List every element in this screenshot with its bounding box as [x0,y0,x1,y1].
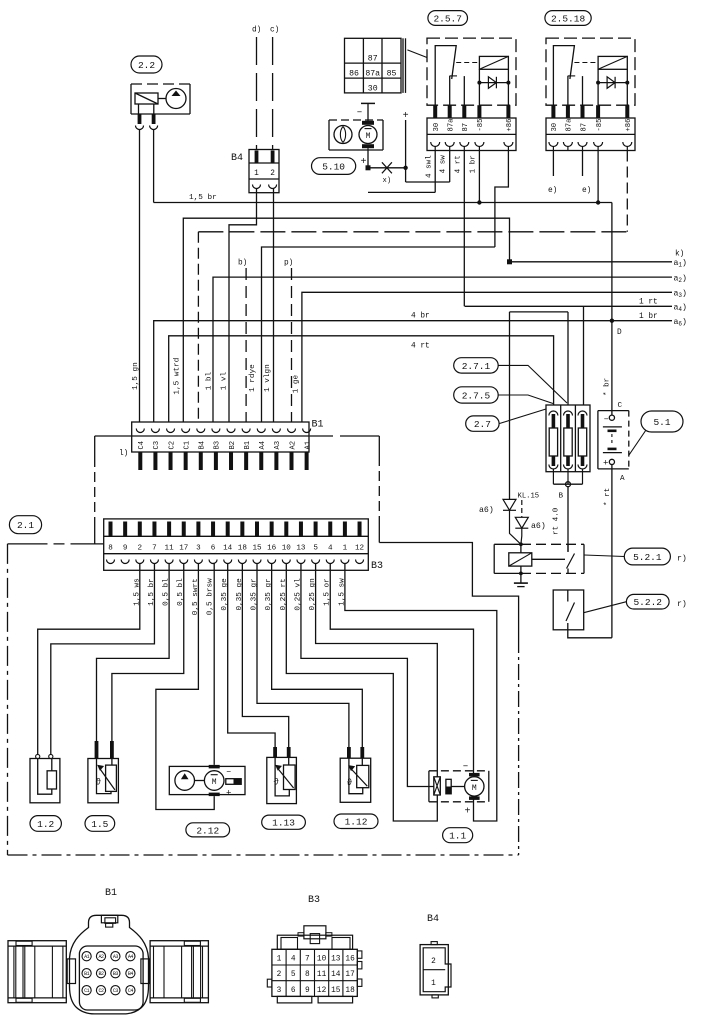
svg-text:B2: B2 [98,971,104,977]
svg-text:3: 3 [277,987,282,995]
svg-text:9: 9 [123,545,128,553]
svg-text:B4: B4 [231,153,243,164]
svg-text:+86: +86 [506,119,514,132]
svg-text:p): p) [284,260,293,268]
svg-text:ϑ: ϑ [274,778,280,788]
svg-text:87a: 87a [448,118,456,132]
svg-text:-85: -85 [477,119,485,132]
svg-text:+: + [360,157,366,168]
svg-text:5.2.1: 5.2.1 [633,552,662,563]
svg-text:86: 86 [349,70,359,79]
svg-text:12: 12 [355,545,365,553]
svg-text:ϑ: ϑ [347,778,353,788]
svg-text:a6): a6) [531,521,546,531]
svg-text:10: 10 [317,956,327,964]
svg-text:87: 87 [580,123,588,132]
svg-text:15: 15 [252,545,262,553]
svg-text:15: 15 [331,987,341,995]
svg-text:KL.15: KL.15 [518,493,540,501]
svg-text:3: 3 [196,545,201,553]
svg-text:a6): a6) [479,505,494,515]
svg-text:5: 5 [291,971,296,979]
svg-text:1: 1 [277,956,282,964]
svg-text:1,5 br: 1,5 br [189,194,217,202]
svg-text:1.2: 1.2 [37,819,54,830]
svg-text:11: 11 [165,545,175,553]
svg-text:7: 7 [152,545,157,553]
svg-text:C3: C3 [153,441,161,450]
svg-text:* br: * br [604,378,612,396]
svg-text:A3: A3 [113,954,119,960]
svg-text:l): l) [119,450,128,458]
svg-text:A: A [620,475,625,483]
svg-text:B: B [559,493,564,501]
svg-text:1.1: 1.1 [449,831,466,842]
svg-text:4: 4 [328,545,333,553]
svg-text:–: – [604,414,609,424]
svg-text:16: 16 [345,956,355,964]
svg-text:1 br: 1 br [639,313,658,321]
svg-text:4: 4 [291,956,296,964]
svg-text:13: 13 [296,545,306,553]
svg-text:d): d) [252,27,261,35]
svg-text:5.10: 5.10 [322,161,345,172]
svg-text:A1: A1 [84,954,90,960]
svg-text:* rt: * rt [604,488,612,506]
svg-text:1,5 wtrd: 1,5 wtrd [174,358,182,395]
svg-text:M: M [472,784,477,793]
svg-text:e): e) [548,187,557,195]
svg-text:2.12: 2.12 [196,825,219,836]
svg-text:1 br: 1 br [469,155,477,173]
svg-text:–: – [357,108,363,119]
svg-text:87a: 87a [365,70,380,79]
svg-text:2.5.18: 2.5.18 [551,13,586,24]
svg-text:C3: C3 [113,988,119,994]
svg-text:1: 1 [343,545,348,553]
svg-text:B4: B4 [427,914,439,925]
svg-text:A4: A4 [259,441,267,450]
svg-text:2.5.7: 2.5.7 [433,13,462,24]
svg-text:c): c) [270,27,279,35]
svg-text:C4: C4 [128,988,134,994]
svg-text:1: 1 [431,980,436,988]
svg-text:1.13: 1.13 [272,818,295,829]
svg-text:B3: B3 [308,895,320,906]
svg-text:A3: A3 [274,441,282,450]
svg-text:2: 2 [431,958,436,966]
svg-text:1 vl: 1 vl [221,371,229,390]
svg-text:B2: B2 [229,441,237,450]
svg-text:2.7.5: 2.7.5 [462,390,491,401]
svg-text:B4: B4 [128,971,134,977]
svg-text:10: 10 [282,545,292,553]
svg-text:b): b) [238,260,247,268]
svg-text:+: + [465,807,471,818]
svg-text:17: 17 [179,545,188,553]
svg-text:5.2.2: 5.2.2 [633,597,662,608]
svg-text:5: 5 [313,545,318,553]
svg-text:4 br: 4 br [411,313,430,321]
svg-text:2.7: 2.7 [474,419,491,430]
svg-text:1 rt: 1 rt [639,299,658,307]
svg-text:6: 6 [291,987,296,995]
svg-text:11: 11 [317,971,327,979]
svg-text:2.2: 2.2 [138,60,155,71]
svg-text:C2: C2 [168,441,176,450]
svg-text:5.1: 5.1 [653,417,670,428]
svg-text:87: 87 [462,123,470,132]
svg-text:e): e) [582,187,591,195]
svg-text:rt 4.0: rt 4.0 [553,507,561,535]
svg-text:8: 8 [305,971,310,979]
svg-text:18: 18 [345,987,355,995]
svg-text:x): x) [383,177,392,185]
svg-text:30: 30 [551,123,559,132]
svg-text:14: 14 [223,545,233,553]
svg-text:A4: A4 [128,954,134,960]
svg-text:r): r) [677,554,687,564]
svg-text:B3: B3 [214,441,222,450]
svg-text:30: 30 [368,85,378,94]
svg-text:B1: B1 [244,441,252,450]
svg-text:M: M [212,778,217,787]
svg-text:C1: C1 [183,441,191,450]
svg-text:–: – [226,767,231,777]
svg-text:–: – [463,762,469,773]
svg-text:2: 2 [138,545,143,553]
svg-text:+: + [226,789,231,799]
svg-text:16: 16 [267,545,277,553]
svg-text:14: 14 [331,971,341,979]
svg-text:87a: 87a [566,118,574,132]
svg-text:B1: B1 [312,420,324,431]
svg-text:A2: A2 [289,441,297,450]
svg-text:12: 12 [317,987,327,995]
svg-text:85: 85 [387,70,397,79]
svg-text:2: 2 [270,170,275,178]
svg-text:D: D [617,329,622,337]
svg-text:0,5 brsw: 0,5 brsw [207,578,215,615]
svg-text:C1: C1 [84,988,90,994]
svg-text:87: 87 [368,55,378,64]
svg-text:M: M [366,132,371,141]
svg-text:1 bl: 1 bl [206,371,214,390]
svg-text:1.12: 1.12 [345,817,368,828]
svg-text:2.1: 2.1 [17,520,34,531]
svg-text:r): r) [677,599,687,609]
svg-text:4 swl: 4 swl [426,155,434,178]
svg-text:1.5: 1.5 [91,819,108,830]
svg-text:1 vlgn: 1 vlgn [264,364,272,392]
svg-text:A2: A2 [98,954,104,960]
svg-text:4 rt: 4 rt [411,343,430,351]
svg-text:1 rdye: 1 rdye [249,364,257,392]
svg-text:B1: B1 [105,888,117,899]
svg-text:A1: A1 [304,441,312,450]
svg-text:C2: C2 [98,988,104,994]
svg-text:4 rt: 4 rt [454,155,462,173]
svg-text:8: 8 [108,545,113,553]
svg-text:13: 13 [331,956,341,964]
svg-text:2: 2 [277,971,282,979]
svg-text:B4: B4 [199,441,207,450]
svg-text:7: 7 [305,956,310,964]
svg-text:k): k) [675,251,684,259]
svg-text:1,5 gn: 1,5 gn [132,362,140,390]
svg-text:2.7.1: 2.7.1 [462,361,491,372]
svg-text:9: 9 [305,987,310,995]
svg-text:6: 6 [211,545,216,553]
svg-text:1: 1 [254,170,259,178]
svg-text:+: + [603,459,608,469]
svg-text:C4: C4 [138,441,146,450]
svg-text:17: 17 [345,971,355,979]
svg-text:18: 18 [238,545,248,553]
svg-text:B3: B3 [371,561,383,572]
svg-text:C: C [618,402,623,410]
svg-text:B1: B1 [84,971,90,977]
svg-text:1 ge: 1 ge [293,374,301,393]
svg-text:30: 30 [433,123,441,132]
svg-text:+86: +86 [625,119,633,132]
svg-text:4 sw: 4 sw [440,155,448,174]
svg-text:-85: -85 [596,119,604,132]
svg-text:B3: B3 [113,971,119,977]
